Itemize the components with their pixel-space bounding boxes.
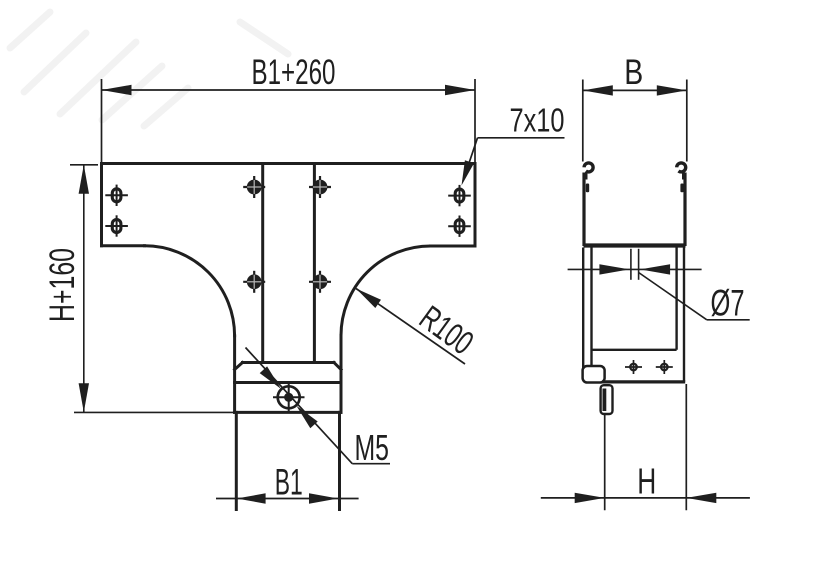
dimension H+160 [70,165,235,413]
7x10 leader arrowhead [462,160,475,185]
left flange bottom edge [102,244,145,247]
right fillet arc R100 [341,246,431,336]
stem side: bottom plate [602,380,685,383]
T-body left edge [100,164,103,246]
right view: right rail wall [683,173,686,247]
left rail hook curl [584,163,593,172]
svg-text:B1+260: B1+260 [252,53,336,92]
M5 leader line [246,348,353,464]
right view: channel bottom [584,243,686,247]
dimension H [541,384,750,510]
left leg below clamp [235,412,238,509]
stem side: right inner line [675,248,677,350]
dimension B1+260 [102,79,476,164]
right stem outer edge [340,336,343,413]
stem side: right outer line [683,248,685,382]
stem inner left line [261,164,264,363]
watermark hatch top-left corner [10,12,288,126]
clamp foot (rounded) [583,366,605,383]
slotted hole left flange lower (7x10) [112,220,121,233]
right leg below clamp [338,412,341,509]
M5 leader arrowheads [260,366,281,389]
svg-text:H: H [637,461,656,502]
side hole right [656,366,673,368]
dimension B [583,80,687,162]
stem inner right line [313,164,316,363]
left fillet arc R100 [145,246,235,336]
T-body right edge [474,164,477,247]
hanging tab [601,385,613,414]
right rail hook curl [677,163,686,172]
dimension B1 line [216,498,359,500]
clamp box left chamfer [235,363,243,370]
left rail nub [586,184,589,193]
stem side: inner bottom line [593,349,677,351]
dimension dia7 [568,249,750,320]
svg-text:7x10: 7x10 [510,102,565,139]
right flange bottom edge [431,245,476,248]
H arrows [575,493,605,503]
stem hole upper-left [243,186,265,188]
B arrows [583,85,613,95]
stem hole lower-right [309,281,331,283]
left stem outer edge [233,336,236,413]
R100 leader [356,289,465,365]
right rail curl stub [682,173,686,180]
clamp box bottom edge [235,411,341,414]
B1 arrows [237,493,266,503]
stem hole lower-left [243,281,265,283]
svg-text:Ø7: Ø7 [711,283,745,324]
clamp box right chamfer [334,363,341,370]
svg-text:H+160: H+160 [43,248,82,322]
T-body top edge [102,162,476,165]
stem side: left inner line [590,248,592,368]
left rail curl stub [584,173,588,180]
dia7 arrows [599,264,629,274]
slotted hole right flange lower (7x10) [455,220,464,233]
clamp box mid line [235,381,341,384]
B1+260 arrows [102,85,132,95]
svg-text:B1: B1 [275,462,303,503]
svg-text:B: B [624,53,643,92]
H+160 arrows [79,165,89,194]
slotted hole left flange upper (7x10) [112,189,121,202]
R100 arrowhead [356,289,381,309]
svg-text:M5: M5 [354,427,389,468]
M5 screw hole symbol [273,382,305,414]
right view: left rail wall [582,173,585,247]
clamp box top edge [243,361,335,364]
stem hole upper-right [309,186,331,188]
label 7x10 with leader [478,137,565,139]
side hole left [625,366,642,368]
stem side: left outer line [582,248,584,370]
slotted hole right flange upper (7x10) [455,189,464,202]
right rail nub [680,184,683,193]
